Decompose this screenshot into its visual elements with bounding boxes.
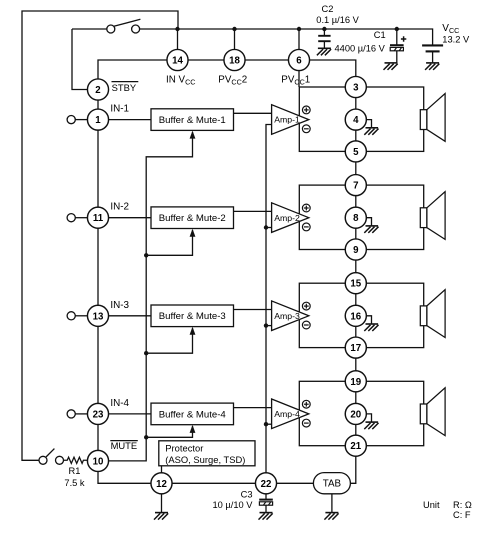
pin 5 — [345, 141, 366, 162]
svg-text:11: 11 — [93, 213, 104, 224]
op-amp Amp-3 — [272, 301, 309, 331]
pin 6 — [288, 49, 309, 70]
block Protector (ASO, Surge, TSD) — [159, 441, 255, 466]
svg-text:21: 21 — [350, 441, 361, 452]
svg-text:19: 19 — [350, 377, 361, 388]
pin 12 — [151, 473, 172, 494]
junction on Vcc rail x=299.0 — [297, 27, 301, 31]
junction on Vcc rail x=324.4 — [322, 27, 326, 31]
wire Buffer & Mute-3 to Amp-3 — [234, 309, 272, 311]
wire input pin to Buffer & Mute-3 — [98, 315, 151, 317]
arrowhead into Buffer & Mute-1 — [190, 131, 196, 139]
pin 17 — [345, 337, 366, 358]
speaker channel 3 — [420, 290, 445, 338]
wire pin18 riser — [234, 29, 236, 60]
arrowhead into Buffer & Mute-2 — [190, 229, 196, 237]
minus output of Amp-1 — [302, 125, 310, 133]
svg-text:10: 10 — [93, 456, 104, 467]
svg-text:Amp-4: Amp-4 — [274, 409, 300, 419]
ground at pin 20 — [364, 414, 378, 429]
wire MUTE branch to Buffer & Mute-3 — [146, 328, 192, 353]
junction on bias bus at Amp-4 — [264, 422, 268, 426]
ground for C2 — [317, 48, 331, 55]
switch S1 (STBY) lever — [114, 19, 140, 26]
pin 20 — [345, 403, 366, 424]
minus output of Amp-3 — [302, 321, 310, 329]
svg-text:4: 4 — [353, 115, 359, 126]
wire pin6 riser — [298, 29, 300, 60]
pin 7 — [345, 175, 366, 196]
speaker channel 2 — [420, 192, 445, 240]
svg-text:Buffer & Mute-2: Buffer & Mute-2 — [159, 213, 226, 224]
switch S1 (STBY) right contact — [132, 25, 140, 33]
op-amp Amp-2 — [272, 203, 309, 233]
ground for C3 — [259, 513, 273, 520]
input terminal IN-4 — [67, 410, 88, 418]
wire channel-3 output box — [299, 283, 423, 347]
wire bias stub to Amp-2 — [266, 227, 272, 229]
svg-text:13.2 V: 13.2 V — [442, 35, 470, 45]
minus output of Amp-2 — [302, 223, 310, 231]
pin 3 — [345, 76, 366, 97]
svg-text:R1: R1 — [69, 466, 81, 476]
svg-text:C2: C2 — [322, 4, 334, 14]
svg-text:Buffer & Mute-4: Buffer & Mute-4 — [159, 409, 227, 420]
wire Vcc rail (switch to Vcc source) — [140, 29, 433, 45]
pin 9 — [345, 239, 366, 260]
wire MUTE branch to Buffer & Mute-4 — [146, 426, 192, 437]
wire Buffer & Mute-2 to Amp-2 — [234, 210, 272, 212]
wire pin14 riser — [177, 29, 179, 60]
switch S2 (MUTE) left contact — [39, 456, 47, 464]
switch S2 (MUTE) lever — [46, 449, 54, 457]
pin 11 — [87, 207, 108, 228]
ground for Vcc source — [425, 63, 439, 70]
junction on MUTE bus for Buffer-2 — [144, 253, 148, 257]
junction on Vcc rail x=177.5 — [175, 27, 179, 31]
pin 21 — [345, 435, 366, 456]
wire pin12 to Protector — [161, 466, 163, 473]
wire pin6 down to channel-1 box corner — [298, 60, 300, 87]
pin 23 — [87, 403, 108, 424]
pin 10 — [87, 450, 108, 471]
switch S2 (MUTE) right contact — [56, 456, 64, 464]
svg-text:0.1 µ/16 V: 0.1 µ/16 V — [316, 15, 359, 25]
ground at pin 16 — [364, 316, 378, 331]
capacitor C2 — [318, 29, 330, 48]
svg-text:7: 7 — [353, 181, 358, 192]
svg-text:Amp-3: Amp-3 — [274, 311, 300, 321]
svg-text:C3: C3 — [241, 489, 253, 499]
wire Vcc rail (left segment to STBY switch) — [72, 28, 107, 30]
junction on bias bus at Amp-2 — [264, 225, 268, 229]
svg-text:15: 15 — [350, 279, 361, 290]
svg-text:Amp-2: Amp-2 — [274, 213, 300, 223]
label PVcc2 — [218, 75, 247, 87]
pin 4 — [345, 109, 366, 130]
plus sign of C1 — [401, 36, 406, 41]
svg-text:18: 18 — [229, 56, 240, 67]
label MUTE (overlined) — [110, 440, 138, 451]
switch S1 (STBY) left contact — [107, 25, 115, 33]
wire input pin to Buffer & Mute-4 — [98, 413, 151, 415]
pin 1 — [87, 109, 108, 130]
input terminal IN-3 — [67, 312, 88, 320]
svg-text:Buffer & Mute-1: Buffer & Mute-1 — [159, 115, 226, 126]
svg-text:17: 17 — [350, 343, 361, 354]
label IN-2 — [110, 202, 129, 213]
svg-text:MUTE: MUTE — [111, 440, 138, 451]
wire input pin to Buffer & Mute-2 — [98, 217, 151, 219]
block Buffer & Mute-1 — [151, 109, 234, 131]
label IN-1 — [110, 104, 129, 115]
label C3 — [213, 489, 254, 510]
svg-text:14: 14 — [172, 56, 183, 67]
minus output of Amp-4 — [302, 419, 310, 427]
pin 19 — [345, 371, 366, 392]
label Vcc 13.2 V — [442, 23, 470, 45]
plus output of Amp-1 — [302, 106, 310, 114]
svg-text:IN-3: IN-3 — [110, 300, 129, 311]
label IN Vcc — [166, 75, 195, 87]
label IN-4 — [110, 398, 129, 409]
svg-text:C1: C1 — [374, 30, 386, 40]
svg-text:16: 16 — [350, 311, 361, 322]
svg-text:R: Ω: R: Ω — [453, 500, 472, 510]
svg-text:3: 3 — [353, 83, 359, 94]
ground below pin 12 — [154, 494, 168, 520]
svg-text:6: 6 — [296, 56, 302, 67]
op-amp Amp-4 — [272, 399, 309, 429]
svg-text:1: 1 — [95, 115, 101, 126]
resistor R1 — [64, 457, 88, 463]
pin 8 — [345, 207, 366, 228]
input terminal IN-1 — [67, 116, 88, 124]
pin 2 — [87, 79, 108, 100]
wire pin2 to STBY switch branch — [72, 29, 88, 90]
wire channel-4 output box — [299, 381, 423, 445]
ground at pin 4 — [364, 120, 378, 135]
svg-text:2: 2 — [95, 85, 100, 96]
speaker channel 4 — [420, 388, 445, 436]
capacitor C1 (electrolytic) — [390, 29, 404, 63]
wire channel-1 output box — [299, 87, 423, 151]
ground below TAB — [324, 494, 338, 520]
pin 18 — [224, 49, 245, 70]
wire bias bus (amp reference line down to pin22) — [266, 125, 272, 474]
label C2 — [316, 4, 359, 25]
arrowhead into Buffer & Mute-4 — [190, 425, 196, 433]
junction on MUTE bus for Buffer-3 — [144, 351, 148, 355]
svg-text:22: 22 — [261, 479, 272, 490]
wire Buffer & Mute-4 to Amp-4 — [234, 407, 272, 409]
svg-text:4400 µ/16 V: 4400 µ/16 V — [335, 44, 386, 54]
svg-text:23: 23 — [93, 409, 104, 420]
wire bias stub to Amp-4 — [266, 423, 272, 425]
TAB terminal — [313, 473, 350, 494]
label C1 — [335, 30, 386, 53]
svg-text:7.5 k: 7.5 k — [64, 478, 85, 488]
speaker channel 1 — [420, 94, 445, 142]
plus output of Amp-2 — [302, 204, 310, 212]
svg-text:8: 8 — [353, 213, 359, 224]
pin 13 — [87, 305, 108, 326]
wire input pin to Buffer & Mute-1 — [98, 119, 151, 121]
svg-text:IN-2: IN-2 — [110, 202, 129, 213]
svg-text:Protector: Protector — [165, 443, 203, 454]
svg-text:STBY: STBY — [112, 82, 137, 93]
svg-text:12: 12 — [156, 479, 167, 490]
capacitor C3 (electrolytic) — [259, 494, 273, 513]
wire left input pin chain (pins 2-1-11-13-23-10) — [97, 90, 99, 461]
plus output of Amp-4 — [302, 400, 310, 408]
op-amp Amp-1 — [272, 105, 309, 135]
block Buffer & Mute-4 — [151, 403, 234, 425]
label R1 value — [64, 466, 85, 488]
ground at pin 8 — [364, 218, 378, 233]
junction on MUTE bus for Buffer-4 — [144, 435, 148, 439]
svg-text:20: 20 — [350, 409, 361, 420]
wire pin21 down to TAB — [351, 446, 356, 484]
arrowhead into Buffer & Mute-3 — [190, 327, 196, 335]
label IN-3 — [110, 300, 129, 311]
wire pin10 down to bottom row and across to pin12/22/TAB — [98, 461, 313, 483]
wire bias stub to Amp-3 — [266, 325, 272, 327]
wire top-left loop (Vcc rail to STBY switch frame) — [22, 11, 178, 460]
block Buffer & Mute-3 — [151, 305, 234, 327]
svg-text:IN-4: IN-4 — [110, 398, 129, 409]
junction on Vcc rail x=234.5 — [232, 27, 236, 31]
svg-text:Amp-1: Amp-1 — [274, 115, 300, 125]
pin 16 — [345, 305, 366, 326]
svg-text:10 µ/10 V: 10 µ/10 V — [213, 500, 254, 510]
wire channel-2 output box — [299, 185, 423, 249]
svg-text:IN-1: IN-1 — [110, 104, 129, 115]
pin 15 — [345, 273, 366, 294]
svg-text:13: 13 — [93, 311, 104, 322]
block Buffer & Mute-2 — [151, 207, 234, 229]
svg-text:5: 5 — [353, 147, 359, 158]
wire Buffer & Mute-1 to Amp-1 — [234, 112, 272, 114]
pin 22 — [255, 473, 276, 494]
svg-text:9: 9 — [353, 245, 359, 256]
junction on bias bus at Amp-3 — [264, 323, 268, 327]
svg-text:TAB: TAB — [323, 479, 342, 490]
svg-text:(ASO, Surge, TSD): (ASO, Surge, TSD) — [165, 454, 245, 465]
label STBY (overlined) — [112, 82, 139, 93]
wire right pin column (pins 3..21) — [355, 87, 357, 446]
wire MUTE branch to Buffer & Mute-2 — [146, 230, 192, 255]
svg-text:C: F: C: F — [453, 510, 471, 520]
pin 14 — [167, 49, 188, 70]
svg-text:Buffer & Mute-3: Buffer & Mute-3 — [159, 311, 226, 322]
input terminal IN-2 — [67, 214, 88, 222]
wire supply row: pin2 riser, IN Vcc / PVcc2 / PVcc1 row, down to pin3 — [98, 60, 356, 90]
ground for C1 — [384, 63, 398, 70]
wire MUTE bus (pin10 up to Buffer&Mute-1 arrow) — [108, 132, 192, 461]
Vcc source symbol — [422, 45, 443, 63]
label PVcc1 — [281, 75, 310, 87]
svg-text:Unit: Unit — [423, 500, 440, 510]
junction on Vcc rail x=396.8 — [395, 27, 399, 31]
plus output of Amp-3 — [302, 302, 310, 310]
label unit note — [423, 500, 472, 520]
